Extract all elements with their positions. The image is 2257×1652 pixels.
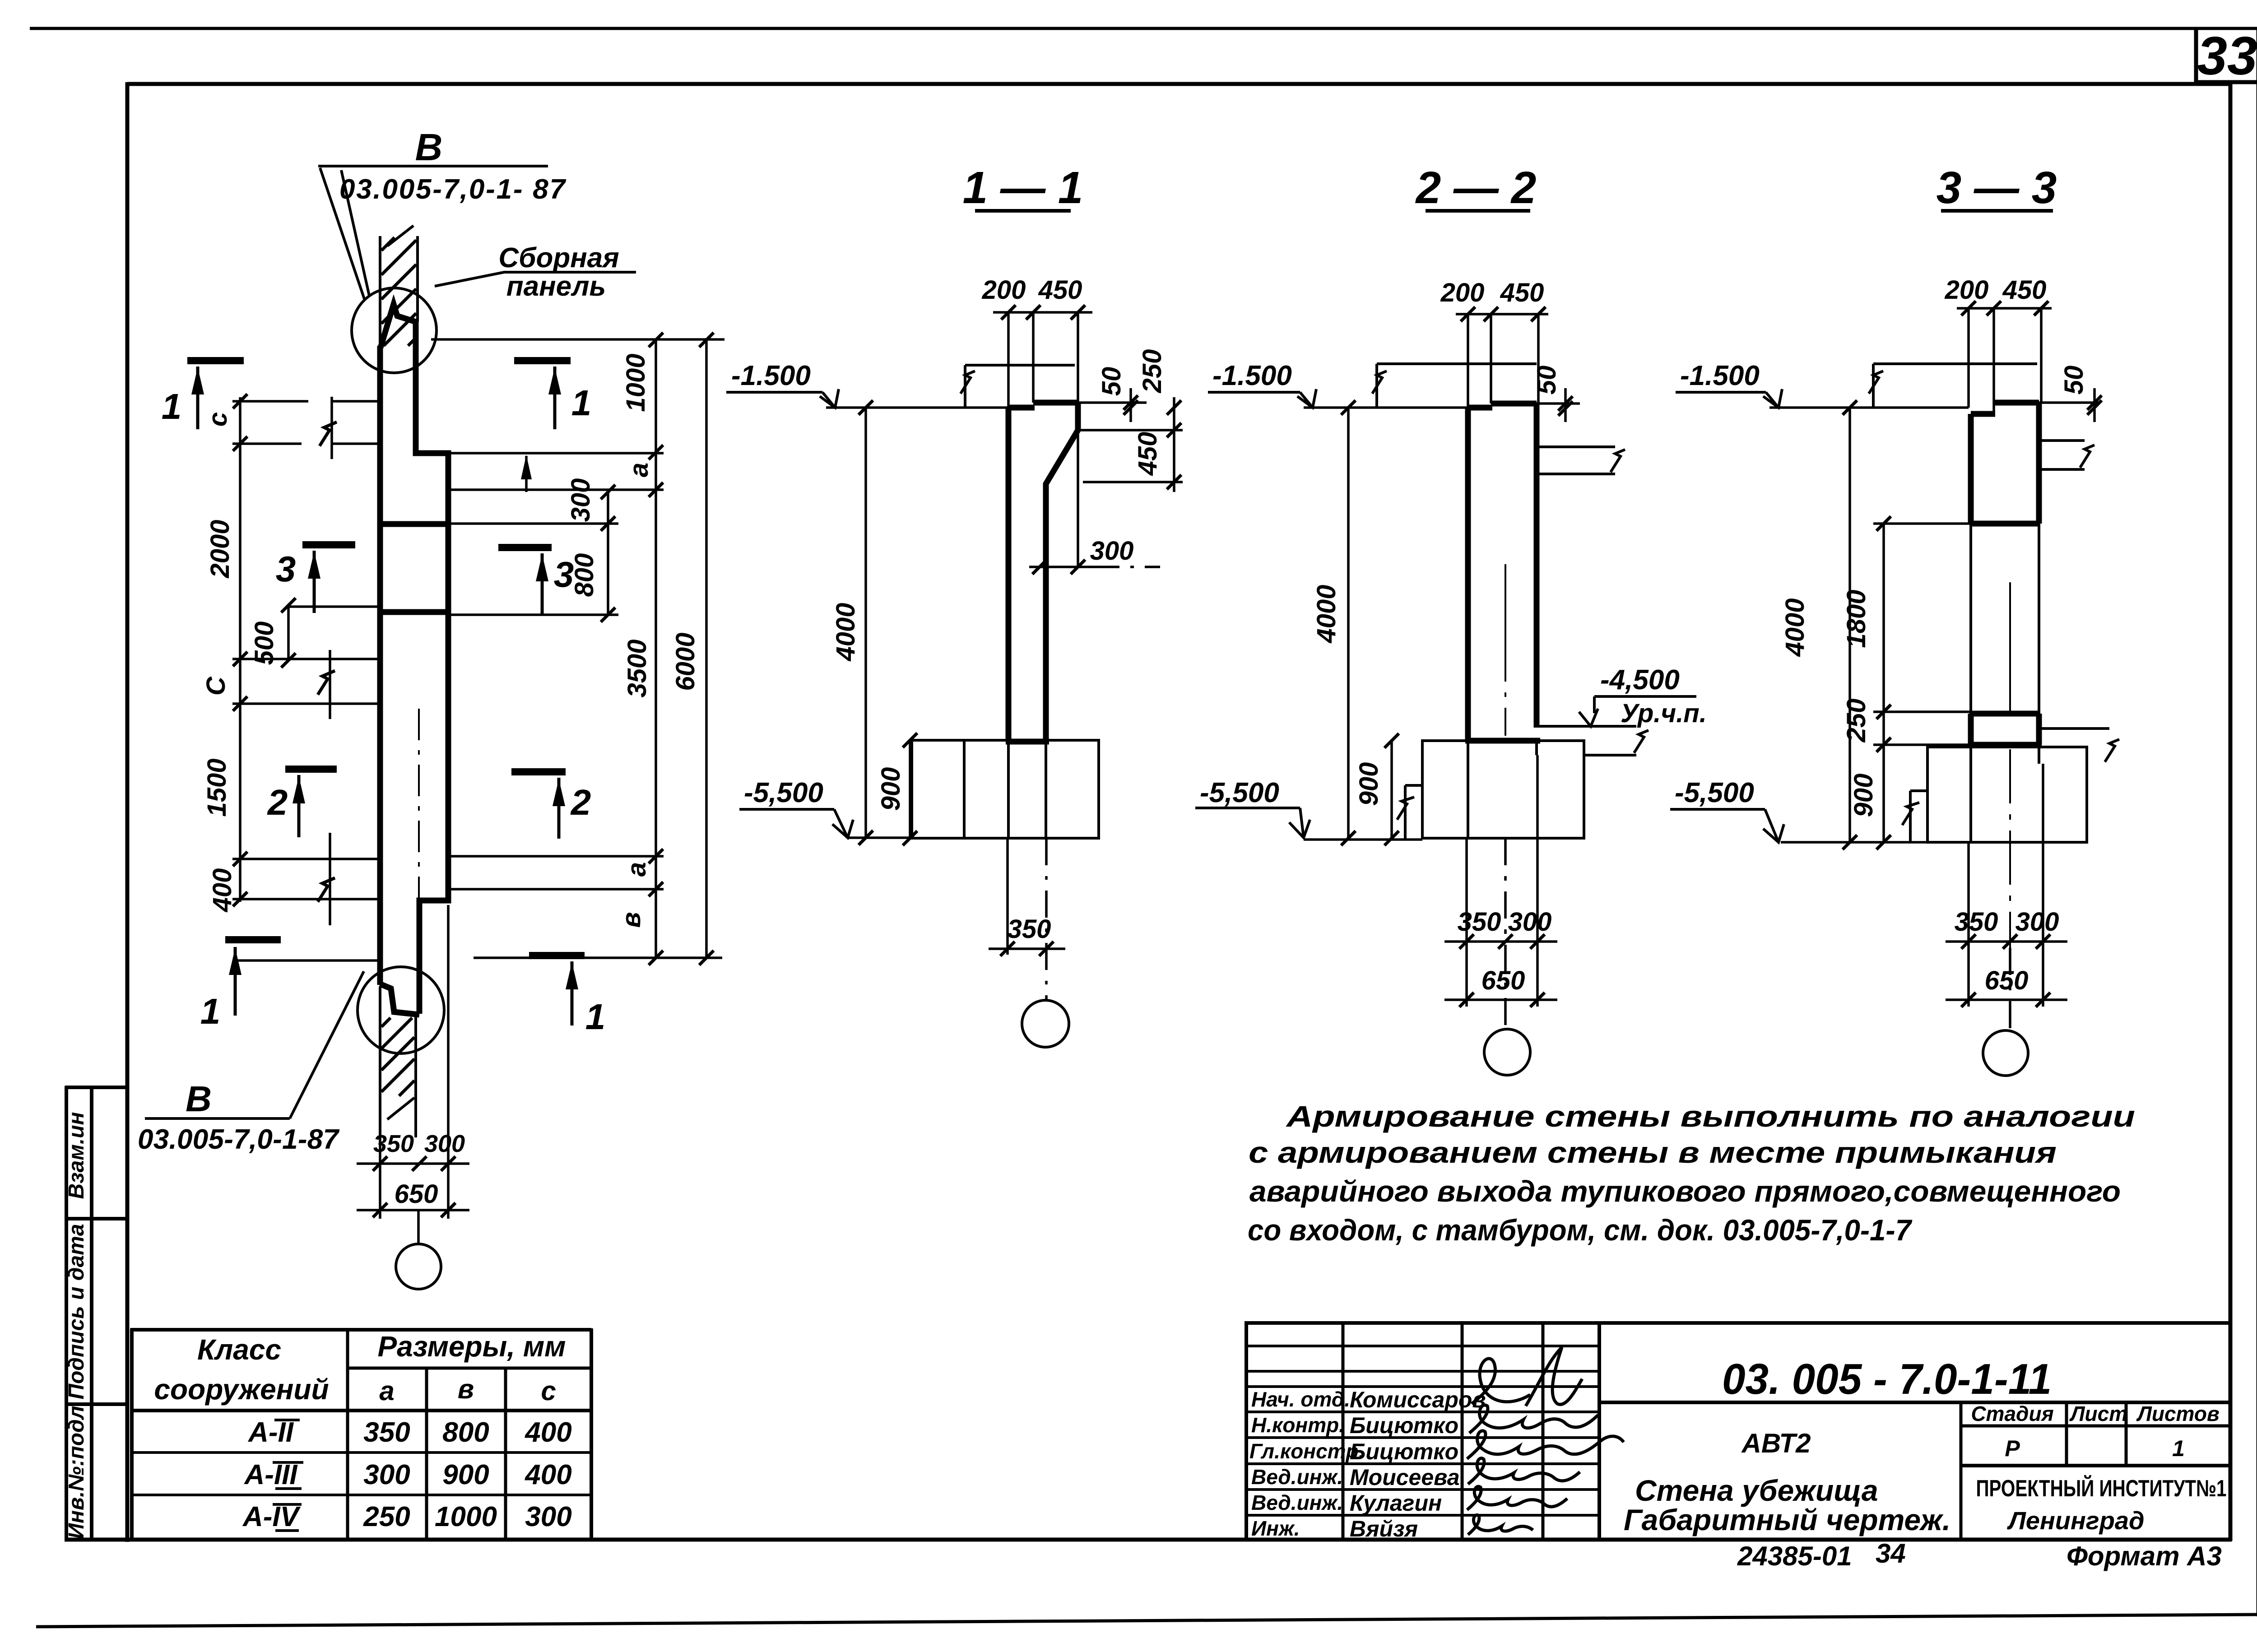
svg-text:Стадия: Стадия <box>1971 1402 2053 1425</box>
section 2-2 right slab stub <box>1537 447 1625 474</box>
plan right chain tick marks <box>601 333 714 965</box>
section 3-3 footing <box>1902 747 2087 842</box>
svg-text:панель: панель <box>506 271 606 302</box>
svg-text:900: 900 <box>876 767 906 811</box>
svg-text:В: В <box>415 126 443 168</box>
svg-text:3: 3 <box>276 549 296 589</box>
section 2-2 dim 4000 <box>1347 408 1350 838</box>
svg-text:а: а <box>622 862 651 877</box>
svg-text:Вед.инж.: Вед.инж. <box>1251 1491 1343 1514</box>
svg-text:Вед.инж.: Вед.инж. <box>1251 1465 1343 1489</box>
svg-text:Листов: Листов <box>2136 1402 2219 1425</box>
svg-text:Вяйзя: Вяйзя <box>1350 1516 1418 1541</box>
svg-text:800: 800 <box>442 1417 489 1448</box>
signatures (handwritten squiggles) <box>1467 1347 1624 1535</box>
section 1-1 footing <box>912 740 1099 838</box>
svg-text:900: 900 <box>442 1459 489 1490</box>
svg-text:А-IV: А-IV <box>242 1501 301 1532</box>
svg-text:2 — 2: 2 — 2 <box>1415 162 1537 213</box>
svg-text:1: 1 <box>585 997 606 1037</box>
top strip break mark <box>387 226 413 246</box>
svg-text:4000: 4000 <box>1780 598 1810 657</box>
svg-text:Подпись и дата: Подпись и дата <box>65 1224 88 1399</box>
svg-text:1: 1 <box>162 386 182 427</box>
plan bottom dimensions 350 300 650 <box>357 905 469 1245</box>
section 3-3 upper wall box <box>1971 403 2039 524</box>
plan axis circle <box>396 1244 441 1289</box>
svg-text:250: 250 <box>363 1501 410 1532</box>
svg-text:Взам.ин: Взам.ин <box>65 1112 88 1199</box>
svg-text:300: 300 <box>525 1501 571 1532</box>
section 2-2 wall centerline <box>1505 564 1506 736</box>
svg-text:900: 900 <box>1354 762 1384 806</box>
section 1-1 wall outline <box>1006 403 1078 742</box>
hatch bottom strip <box>381 1018 414 1096</box>
section marker 3 left <box>302 545 355 613</box>
svg-text:а: а <box>624 463 654 477</box>
svg-text:400: 400 <box>524 1417 571 1448</box>
section 2-2 dim 50 <box>1537 388 1580 422</box>
svg-text:1: 1 <box>200 991 221 1031</box>
detail circle top <box>352 288 437 373</box>
svg-text:250: 250 <box>1842 699 1871 743</box>
arrow at extension line <box>521 455 532 479</box>
wall right edge upper <box>416 320 448 1014</box>
wall joint line 2 <box>380 609 448 615</box>
svg-text:А-II: А-II <box>247 1417 294 1448</box>
svg-text:со входом, с тамбуром, см.: со входом, с тамбуром, см. док. 03.005-7… <box>1248 1213 1913 1247</box>
svg-text:Лист: Лист <box>2069 1402 2127 1425</box>
svg-text:Ленинград: Ленинград <box>2006 1506 2144 1535</box>
svg-text:В: В <box>186 1079 212 1119</box>
plan left chain tick marks <box>233 394 296 906</box>
svg-text:1 — 1: 1 — 1 <box>963 162 1083 213</box>
svg-text:2: 2 <box>570 782 591 822</box>
section 2-2 axis circle <box>1484 1029 1530 1075</box>
svg-text:200: 200 <box>1945 275 1989 305</box>
svg-text:Размеры, мм: Размеры, мм <box>377 1330 566 1363</box>
detail circle bottom <box>358 967 444 1053</box>
plan right dimension chain lines <box>431 339 724 958</box>
svg-text:200: 200 <box>982 275 1026 305</box>
svg-text:с: с <box>541 1376 556 1406</box>
title block signature names <box>1350 1387 1486 1541</box>
svg-text:ПРОЕКТНЫЙ ИНСТИТУТ№1: ПРОЕКТНЫЙ ИНСТИТУТ№1 <box>1976 1475 2227 1502</box>
svg-text:350: 350 <box>1008 914 1051 944</box>
svg-text:450: 450 <box>1500 278 1544 307</box>
plan left dimension chain lines <box>232 397 381 961</box>
section 1-1 right small dims 50 250 450 <box>1078 388 1183 492</box>
svg-text:Бицютко: Бицютко <box>1350 1439 1458 1464</box>
section 2-2 lower right ledge <box>1537 726 1649 755</box>
svg-text:650: 650 <box>1985 966 2029 995</box>
svg-text:Моисеева: Моисеева <box>1350 1465 1460 1490</box>
svg-text:-1.500: -1.500 <box>1212 360 1292 391</box>
svg-text:в: в <box>617 912 646 928</box>
svg-text:сооружений: сооружений <box>154 1373 329 1406</box>
svg-text:6000: 6000 <box>671 632 700 691</box>
svg-text:Н.контр.: Н.контр. <box>1251 1413 1345 1437</box>
section 2-2 wall outline <box>1465 404 1540 741</box>
section 3-3 dim 50 <box>2039 388 2099 422</box>
svg-text:Стена убежища: Стена убежища <box>1635 1474 1878 1507</box>
svg-text:Инв.№:подл: Инв.№:подл <box>65 1406 88 1539</box>
section marker 2 left <box>285 769 337 837</box>
section 3-3 right slab stub <box>2039 441 2094 469</box>
svg-text:500: 500 <box>250 622 279 665</box>
svg-text:Класс: Класс <box>197 1333 281 1366</box>
title block signature row labels <box>1249 1387 1364 1540</box>
svg-text:-5,500: -5,500 <box>1675 777 1754 808</box>
wall left edge <box>377 346 383 985</box>
svg-text:Комиссаров: Комиссаров <box>1350 1387 1486 1412</box>
svg-text:с армированием стены: с армированием стены в месте примыкания <box>1249 1136 2057 1169</box>
section 3-3 lower wall thin part <box>1971 524 2039 714</box>
section 1-1 bottom dim 350 <box>989 838 1065 1000</box>
svg-text:03.005-7,0-1-87: 03.005-7,0-1-87 <box>138 1124 340 1155</box>
svg-text:Инж.: Инж. <box>1251 1517 1300 1540</box>
svg-text:-1.500: -1.500 <box>731 360 811 391</box>
svg-text:АВТ2: АВТ2 <box>1741 1428 1811 1458</box>
left stamp column boxes <box>65 1086 127 1540</box>
svg-text:1: 1 <box>571 383 592 423</box>
svg-text:250: 250 <box>1138 349 1167 394</box>
svg-text:400: 400 <box>208 868 237 913</box>
svg-text:350: 350 <box>1955 907 1998 937</box>
svg-text:300: 300 <box>363 1459 410 1490</box>
svg-text:900: 900 <box>1849 774 1878 817</box>
sheet number box 33 <box>2196 28 2257 84</box>
sheet bottom edge line <box>36 1615 2257 1627</box>
section 3-3 bottom dims 350 300 650 <box>1946 764 2067 1031</box>
svg-text:1000: 1000 <box>621 353 650 412</box>
svg-text:2000: 2000 <box>205 520 235 578</box>
svg-text:33: 33 <box>2197 26 2257 86</box>
section 1-1 floor slab top <box>961 365 1075 408</box>
svg-text:50: 50 <box>1532 366 1561 395</box>
section 2-2 bottom dims 350 300 650 <box>1444 755 1557 1030</box>
section 3-3 lower wall thick box 250 <box>1968 714 2042 745</box>
break marks on interrupted extension lines <box>318 422 337 902</box>
svg-text:450: 450 <box>2002 275 2047 305</box>
svg-text:400: 400 <box>524 1459 571 1490</box>
svg-text:1: 1 <box>2172 1436 2185 1461</box>
svg-text:-1.500: -1.500 <box>1680 360 1760 391</box>
svg-text:Армирование стены выполни: Армирование стены выполнить по аналогии <box>1286 1100 2135 1133</box>
section 3-3 wall centerline <box>2009 582 2011 714</box>
svg-text:50: 50 <box>1097 367 1126 396</box>
svg-text:А-III: А-III <box>243 1459 298 1490</box>
svg-text:-5,500: -5,500 <box>744 777 823 808</box>
svg-text:350: 350 <box>363 1417 410 1448</box>
svg-text:24385-01: 24385-01 <box>1737 1541 1852 1571</box>
svg-text:4000: 4000 <box>831 603 860 661</box>
svg-text:300: 300 <box>1508 907 1552 937</box>
wall top joint zigzag (panel seat) <box>381 304 416 348</box>
svg-text:-4,500: -4,500 <box>1600 664 1680 696</box>
section 1-1 axis circle <box>1022 1000 1069 1047</box>
section 3-3 dim 4000 <box>1848 408 1851 842</box>
svg-text:c: c <box>203 412 232 427</box>
svg-text:300: 300 <box>2016 907 2059 937</box>
svg-text:800: 800 <box>570 553 599 597</box>
svg-text:Ур.ч.п.: Ур.ч.п. <box>1621 699 1707 728</box>
svg-text:1800: 1800 <box>1842 589 1871 648</box>
section 2-2 dim 900 <box>1390 741 1393 838</box>
svg-text:350: 350 <box>1458 907 1501 937</box>
svg-text:450: 450 <box>1038 275 1082 305</box>
wall bottom joint zigzag <box>380 984 419 1015</box>
svg-text:1000: 1000 <box>435 1501 497 1532</box>
section marker 3 right <box>498 548 552 614</box>
svg-text:аварийного выхода тупикового: аварийного выхода тупикового прямого,сов… <box>1249 1174 2121 1208</box>
svg-text:34: 34 <box>1876 1538 1906 1568</box>
svg-text:2: 2 <box>267 782 288 822</box>
svg-text:450: 450 <box>1133 432 1162 476</box>
svg-text:в: в <box>458 1374 474 1404</box>
svg-text:Р: Р <box>2005 1436 2020 1461</box>
svg-text:Кулагин: Кулагин <box>1350 1490 1442 1516</box>
section marker 1 bottom-left <box>225 940 281 1016</box>
svg-text:1500: 1500 <box>202 758 232 817</box>
section marker 1 bottom-right <box>529 956 585 1026</box>
svg-text:Бицютко: Бицютко <box>1350 1413 1458 1438</box>
section 1-1 dim 900 <box>909 740 911 838</box>
svg-text:а: а <box>379 1376 394 1406</box>
svg-text:Сборная: Сборная <box>498 242 619 274</box>
title block grid <box>1245 1321 2230 1540</box>
svg-text:4000: 4000 <box>1312 585 1341 643</box>
sheet top edge line <box>30 27 2257 30</box>
svg-text:650: 650 <box>1481 966 1525 995</box>
svg-text:50: 50 <box>2059 366 2089 395</box>
class table (Класс сооружений / Размеры, мм) <box>130 1328 591 1540</box>
svg-text:3500: 3500 <box>622 639 652 697</box>
section 3-3 centerline through footing <box>2009 749 2011 948</box>
svg-text:Формат А3: Формат А3 <box>2067 1541 2222 1571</box>
wall joint line 1 <box>380 521 448 527</box>
section 3-3 floor slab top <box>1869 364 2037 408</box>
sheet right edge line <box>2257 28 2257 1616</box>
svg-text:300: 300 <box>424 1130 465 1157</box>
svg-text:3 — 3: 3 — 3 <box>1937 162 2057 213</box>
bottom strip break mark <box>387 1098 414 1119</box>
section 1-1 dim 4000 <box>864 408 867 838</box>
svg-text:300: 300 <box>1090 536 1134 566</box>
svg-text:03. 005 - 7.0-1-11: 03. 005 - 7.0-1-11 <box>1722 1355 2052 1403</box>
svg-text:C: C <box>201 676 231 696</box>
section marker 1 top-left <box>187 361 244 429</box>
section marker 1 top-right <box>514 361 571 429</box>
svg-text:350: 350 <box>373 1130 414 1157</box>
svg-text:300: 300 <box>566 478 595 522</box>
svg-text:Нач. отд.: Нач. отд. <box>1251 1387 1350 1411</box>
section 3-3 right ledge <box>2039 729 2119 762</box>
section marker 2 right <box>511 772 566 839</box>
section 3-3 axis circle <box>1983 1030 2028 1076</box>
svg-text:Габаритный чертеж.: Габаритный чертеж. <box>1624 1503 1950 1536</box>
section 2-2 floor slab top <box>1372 364 1537 408</box>
precast panel hatch top strip <box>381 237 416 346</box>
svg-text:200: 200 <box>1440 278 1485 307</box>
svg-text:Гл.констр.: Гл.констр. <box>1249 1439 1364 1463</box>
svg-text:-5,500: -5,500 <box>1200 777 1279 808</box>
section 3-3 left dims 1800 250 900 <box>1781 524 1971 842</box>
svg-text:650: 650 <box>395 1179 438 1209</box>
wall centerline <box>418 709 420 1011</box>
section 2-2 footing <box>1397 741 1584 840</box>
